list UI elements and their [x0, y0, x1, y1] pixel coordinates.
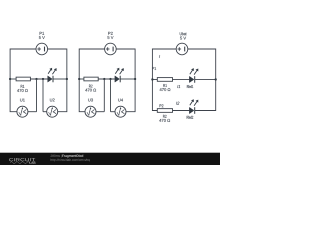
LED label Rled2	[187, 116, 193, 119]
LED D1	[48, 68, 57, 83]
resistor R2	[84, 77, 98, 91]
node junction right rail P1	[66, 78, 68, 80]
wire left rail to R1	[10, 78, 16, 80]
wire to U1	[28, 111, 37, 113]
wire to U3	[96, 111, 104, 113]
node junction left rail P2	[78, 78, 80, 80]
resistor R1	[157, 78, 172, 91]
wire Ubat- down right to LED2	[188, 49, 216, 111]
LED label Rled1	[187, 85, 193, 88]
wire R2 to LED	[98, 78, 115, 80]
node junction right rail P2	[134, 78, 136, 80]
voltmeter U4	[115, 99, 126, 118]
footer bar	[0, 153, 220, 165]
current label I2	[176, 102, 179, 105]
node label P2	[160, 104, 164, 107]
wire LED to right rail	[53, 78, 67, 80]
wire P1- to U2 right	[48, 49, 67, 112]
voltmeter U2	[47, 99, 58, 118]
wire LED to right rail	[120, 78, 135, 80]
current label I1	[177, 85, 180, 88]
node junction R1/LED a	[35, 78, 37, 80]
wire riser U4	[110, 79, 112, 112]
circuit 3	[151, 32, 217, 122]
resistor R1	[16, 77, 30, 92]
voltmeter U1	[17, 99, 28, 118]
wire P2+ to U3 left	[79, 49, 104, 112]
node junction R1/LED b	[42, 78, 44, 80]
current label I	[158, 55, 161, 58]
voltage source P2 5 V	[105, 32, 117, 55]
circuit 1	[9, 32, 68, 117]
LED Rled2	[189, 99, 198, 114]
wire P2- to U4 right	[116, 49, 135, 112]
wire to U2	[43, 111, 47, 113]
voltmeter U3	[85, 99, 96, 118]
wire R1 to LED1	[173, 78, 190, 80]
node junction left rail P1	[9, 78, 11, 80]
node junction R2/LED b	[109, 78, 111, 80]
wire riser U2	[42, 79, 44, 112]
voltage source Ubat 5 V	[176, 32, 188, 55]
wire left to R1	[152, 78, 157, 80]
node junction right branch1	[215, 78, 217, 80]
voltage source P1 5 V	[36, 32, 48, 55]
footer info text line 2	[51, 159, 90, 162]
wire Ubat+ down left to R2	[152, 49, 176, 111]
wire LED1 to right	[195, 78, 216, 80]
circuit 2	[78, 32, 136, 117]
wire left rail to R2	[79, 78, 84, 80]
wire R1 to LED	[30, 78, 47, 80]
node junction left branch1	[151, 78, 153, 80]
wire riser U3	[103, 79, 105, 112]
LED D2	[115, 68, 124, 83]
wire R2 to LED2	[173, 110, 190, 112]
CircuitLab logo	[9, 158, 35, 164]
resistor R2	[157, 109, 172, 122]
node label P1	[152, 67, 156, 70]
wire riser U1	[36, 79, 38, 112]
LED Rled1	[189, 68, 198, 83]
wire P1+ to U1 left	[10, 49, 36, 112]
wire to U4	[111, 111, 116, 113]
node junction R2/LED a	[103, 78, 105, 80]
footer info text line 1	[51, 155, 62, 158]
